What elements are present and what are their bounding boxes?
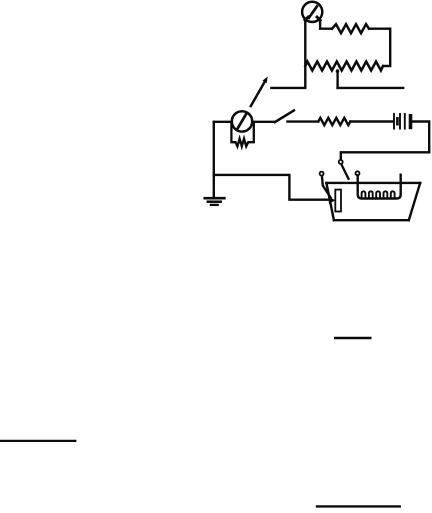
meter M2 shunt skirt with fringe [231,124,253,146]
meter M1 (upper galvanometer) [302,2,322,22]
wire: battery to bath switch terminal [341,122,429,160]
meter M1 right terminal tick [317,17,320,20]
wire: tap down [336,71,338,88]
wire: R3 to battery [350,120,392,122]
resistor R3 [318,118,350,125]
switch S1 arrow (selector blade) [251,77,268,107]
terminal: bath switch post [339,160,343,164]
heater coil frame [358,175,401,199]
wire: M1 right lead [320,22,332,29]
meter M1 needle [309,6,317,18]
rule: short underline middle right [335,337,370,339]
resistor R1 [332,24,369,33]
wire: left post lead into bath [322,176,331,198]
terminal: right bath post [356,171,360,175]
switch S2 blade [275,111,294,123]
ground [205,198,225,205]
element (resistance thermometer bulb) [335,190,341,212]
wire: S2 fixed contact to R3 [288,120,319,122]
wire: tap bottom horizontal [338,87,404,89]
wire: M2 left lead [214,121,231,123]
resistor R2 (slide wire) [305,62,383,71]
terminal: left bath post [320,172,324,176]
switch S3 blade (open, over bath) [342,165,349,178]
battery BT1 [394,114,411,129]
tub (water bath) [326,183,420,220]
meter M2 (lower galvanometer) [232,111,252,131]
meter M1 left terminal tick [305,17,308,20]
wire: left vertical to ground [213,122,215,197]
meter M2 needle [238,114,246,128]
wire: ground branch to bath element [214,175,329,200]
wire: M2 right lead [253,121,275,123]
rule: bottom left line [0,440,75,442]
rule: bottom right line [317,505,400,507]
wire: R1 to R2 right side [369,29,390,66]
arrowhead at element [328,197,335,204]
heater coil turns [362,191,395,198]
wire: M1 left lead down and left contact stub [271,21,305,88]
node: slide-wire tap junction [336,70,340,74]
